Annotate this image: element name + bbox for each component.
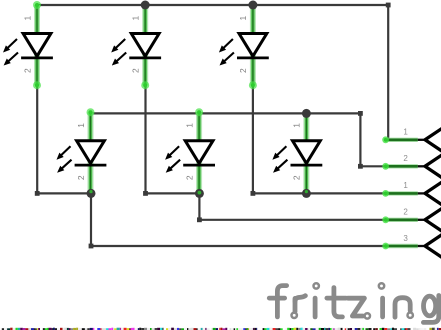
- junction net1 x LED2: [141, 1, 150, 10]
- bend point node A corner: [89, 244, 94, 249]
- connector pin J3 (label 1): [382, 181, 441, 204]
- node B green tip: [198, 191, 202, 195]
- svg-text:1: 1: [76, 123, 86, 128]
- junction node B: [195, 189, 204, 198]
- bend point LED2 corner: [143, 191, 148, 196]
- photodiode LED1: [3, 1, 53, 89]
- photodiode LED6: [272, 112, 322, 192]
- wire node B to pin4: [199, 219, 385, 221]
- wire node A to pin5: [91, 245, 385, 247]
- svg-text:1: 1: [184, 123, 194, 128]
- svg-text:2: 2: [184, 175, 194, 180]
- wire node B drop: [198, 193, 200, 219]
- photodiode LED4: [57, 108, 107, 192]
- junction node C: [302, 189, 311, 198]
- wire LED3 cathode drop: [252, 85, 254, 193]
- bend point LED1 corner: [35, 191, 40, 196]
- photodiode LED2: [111, 5, 161, 89]
- svg-text:2: 2: [238, 68, 248, 73]
- wire net1 right drop: [387, 5, 389, 140]
- node A green tip: [89, 190, 92, 193]
- junction net2 x LED6: [302, 109, 311, 118]
- connector pin J4 (label 2): [382, 208, 441, 231]
- svg-text:2: 2: [76, 175, 86, 180]
- svg-text:1: 1: [403, 181, 408, 190]
- photodiode LED5: [165, 108, 215, 192]
- wire top rail net1: [37, 4, 388, 6]
- svg-text:1: 1: [292, 123, 302, 128]
- connector pin J5 (label 3): [382, 234, 441, 257]
- svg-text:2: 2: [22, 68, 32, 73]
- wire LED3 to node C: [253, 192, 307, 194]
- connector pin J2 (label 2): [382, 154, 441, 177]
- junction net1 x LED3: [248, 1, 257, 10]
- svg-text:1: 1: [403, 128, 408, 137]
- bottom artifact strip: [0, 328, 441, 330]
- photodiode LED3: [219, 5, 269, 89]
- bend point node B corner: [197, 217, 202, 222]
- fritzing logo: [269, 283, 439, 322]
- wire LED1 to node A: [37, 192, 91, 194]
- bend point top-right corner: [386, 3, 391, 8]
- bend point net2 corner lower: [358, 164, 363, 169]
- svg-text:2: 2: [131, 68, 141, 73]
- svg-text:2: 2: [403, 154, 408, 163]
- connector pin J1 (label 1): [382, 128, 441, 151]
- wire node A drop: [90, 193, 92, 246]
- svg-text:3: 3: [403, 234, 408, 243]
- node C green tip: [305, 190, 308, 193]
- wire net1 to pin1: [385, 139, 388, 141]
- svg-text:1: 1: [238, 16, 248, 21]
- svg-text:1: 1: [22, 16, 32, 21]
- svg-text:2: 2: [403, 208, 408, 217]
- svg-text:2: 2: [292, 175, 302, 180]
- bend point net2 corner upper: [358, 111, 363, 116]
- wire LED1 cathode drop: [36, 85, 38, 193]
- junction node A: [87, 189, 96, 198]
- wire node C to pin3: [306, 192, 385, 194]
- wire LED2 to node B: [146, 192, 200, 194]
- wire net2 drop: [359, 113, 361, 166]
- bend point LED3 corner: [251, 191, 256, 196]
- wire net2 to pin2: [360, 165, 385, 167]
- svg-text:1: 1: [131, 16, 141, 21]
- wire second rail net2: [91, 112, 361, 114]
- wire LED2 cathode drop: [144, 85, 146, 193]
